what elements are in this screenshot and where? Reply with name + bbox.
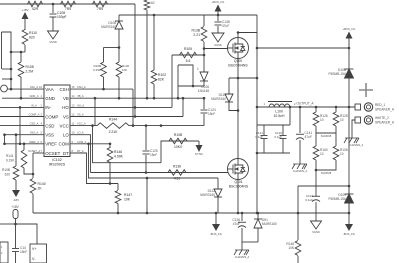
svg-text:+18V: +18V [21,8,28,12]
power flag -BUS_FIL mid [210,213,223,236]
wire HO riser [171,55,173,107]
capacitor C141 47uF [299,107,301,133]
svg-text:2.21: 2.21 [193,33,200,37]
capacitor C141 plates [296,134,304,139]
junction VSS R10B [15,133,18,136]
svg-text:VS_A: VS_A [77,113,84,117]
junction VS x135 [134,115,137,118]
connector +18V pin [13,210,18,219]
wire x183 drop [182,98,184,116]
label D106 pin1 [197,67,199,71]
diode D112 MURS160 [214,178,222,213]
wire R108 bottom [20,77,22,98]
capacitor C122 0.1uF [312,196,320,201]
svg-text:OCSET_A: OCSET_A [28,149,40,153]
svg-text:10: 10 [340,152,344,156]
svg-text:0.1uF: 0.1uF [274,135,282,139]
junction VCC x161 [160,124,163,127]
junction VSS left [3,133,6,136]
wire VCC row right [70,125,204,127]
label C144 [20,246,27,254]
svg-text:R13B: R13B [192,29,201,33]
svg-text:10: 10 [320,118,324,122]
svg-text:+18V: +18V [11,205,19,209]
power flag +BUS top [212,0,225,16]
wire OCSET to x33 drop [32,174,34,178]
svg-text:VAA_A: VAA_A [30,85,38,89]
resistor R144 2.21K [97,123,129,129]
label net VREF [29,140,43,144]
junction top rail / C108 [52,3,55,6]
junction VB x204 [203,97,206,100]
wire pin VREF [5,143,45,145]
junction C125 VCC row [145,124,148,127]
op-amp V+ V- block [30,244,47,263]
svg-text:R108: R108 [26,65,34,69]
svg-text:15nF: 15nF [208,112,215,116]
wire Q100 drain stub [237,33,239,38]
svg-text:SYNC: SYNC [195,152,204,156]
label C126 [232,218,240,226]
svg-text:0.1uF: 0.1uF [255,135,263,139]
wire R139 drop [146,10,148,98]
junction capbox rail [256,212,259,215]
connector SPKR pin1 [355,103,373,111]
svg-text:Q101: Q101 [234,180,242,184]
junction output tap [237,77,240,80]
label R10B [2,168,10,177]
junction R139 VB row [146,97,149,100]
wire R mid join [316,126,336,133]
junction out x350 [348,106,351,109]
label R144 [109,118,119,135]
junction R108 GND row [20,97,23,100]
wire R128 top [335,107,337,112]
wire pin GND [2,97,44,99]
label R132 value [65,7,71,11]
connector left edge block [0,242,8,263]
capacitor C125 15nF [143,126,150,173]
svg-text:+BUS_FIL: +BUS_FIL [343,27,356,31]
junction R117 CSH row [102,88,105,91]
svg-text:VREF_A: VREF_A [29,140,39,144]
label OUTPUT_A [296,102,314,106]
wire C108 stub [52,4,54,13]
svg-text:47uF: 47uF [305,135,312,139]
wire pin CSD [0,125,44,127]
resistor R126 10 [313,112,319,126]
wire +18V down [15,219,17,225]
chassis ground speaker [344,130,364,147]
resistor R140 4.99K [107,148,113,163]
label R128 [340,114,348,122]
svg-text:V+: V+ [32,247,37,251]
label R108 [26,65,34,74]
svg-text:SGND: SGND [312,230,320,234]
wire C141 bottom [299,140,301,156]
junction VB x183 [182,97,185,100]
junction out x302 [299,106,302,109]
svg-text:GND: GND [45,96,55,101]
svg-text:COMP_A: COMP_A [29,113,40,117]
wire -BUS rail [33,212,349,214]
junction +BUS C138 [217,14,220,17]
wire +18V node right [16,224,38,244]
junction x21 y52 [20,51,23,54]
junction C125 gate row [145,171,148,174]
label D108 [101,21,116,29]
wire VS rail corner [256,15,258,107]
wire C122 bottom [315,202,317,221]
label C124 [208,108,216,116]
wire input feed y79 [2,78,11,80]
label net COMP [29,113,43,117]
svg-text:0.1uF: 0.1uF [305,198,313,202]
label net VAA [30,85,43,89]
junction COM x110 [109,143,112,146]
svg-text:-18V: -18V [13,198,19,202]
svg-text:GND_A: GND_A [30,94,39,98]
power flag SYNC [195,141,204,156]
label D106 [198,85,209,93]
svg-text:WHITE_2: WHITE_2 [375,116,389,120]
svg-text:R141: R141 [6,154,14,158]
svg-text:15nF: 15nF [150,153,157,157]
wire DT bundle [70,153,118,184]
resistor R105 5.6 [180,52,197,58]
svg-text:HO_A: HO_A [77,103,84,107]
wire Q100 source [237,59,239,159]
wire capbox left [256,107,258,153]
wire loop leg a [178,65,193,86]
label IC102 refdes [49,158,66,167]
label R14B [174,133,183,149]
svg-text:CSD_A: CSD_A [30,122,39,126]
resistor R160 10 [313,146,319,160]
wire R mid drop b [335,133,337,146]
svg-text:R10B: R10B [174,133,183,137]
wire input feed y69 [2,68,11,70]
wire C126 D51 join [242,241,258,243]
diode D109 P6SMB-15A [345,186,354,213]
wire node row y52 [11,51,25,53]
wire capbox right [289,107,291,125]
wire VSS to R10B [15,135,17,166]
junction VAA row x11 [10,88,13,91]
junction x11 y69 [10,68,13,71]
svg-text:-BUS_FIL: -BUS_FIL [343,232,356,236]
wire top bend down x135 [134,4,136,117]
resistor R141 6.19K [21,150,27,168]
svg-text:CSH: CSH [60,87,69,92]
label C122 [305,194,313,202]
wire VCC bundle [93,126,162,163]
svg-text:OCSET: OCSET [45,151,60,156]
svg-text:CSH_A: CSH_A [77,85,86,89]
wire R110 top [24,29,26,30]
IC102 right pin numbers [72,85,87,153]
wire R141 top stub [23,144,25,150]
label R106 [340,148,348,156]
wire R148 top [297,186,299,240]
junction Q101 source rail [237,212,240,215]
svg-text:10K: 10K [288,246,295,250]
wire output tap row [229,77,257,79]
junction Q100 drain [237,31,240,34]
svg-text:R110: R110 [29,31,37,35]
wire R mid drop a [315,133,317,146]
svg-text:2.21K: 2.21K [109,130,119,134]
junction out x336 [335,106,338,109]
label R138 [192,29,201,38]
wire capbox inner top [257,124,290,126]
resistor R14B 10K0 [169,138,187,144]
svg-text:P6SMB-15A: P6SMB-15A [328,72,346,76]
power flag +BUS_FIL right [343,27,356,48]
svg-text:MURS160: MURS160 [211,97,226,101]
svg-text:6.19K: 6.19K [6,159,15,163]
wire LO bundle [70,135,91,173]
svg-text:VS: VS [63,114,69,119]
junction output x257 [256,77,259,80]
svg-text:COM_A: COM_A [77,140,86,144]
junction x257 y48 [256,47,259,50]
svg-text:R105: R105 [184,47,192,51]
wire output row [257,106,356,108]
wire pin COMP [0,116,44,118]
wire R144 riser [94,98,96,125]
svg-text:CSD: CSD [45,123,54,128]
label R136 [173,165,181,181]
op-amp IC102 IRS2092S body [44,85,70,157]
label D109 [328,193,346,201]
svg-text:LO_A: LO_A [77,131,84,135]
junction x20 VREF [19,143,22,146]
power flag -18V [12,184,20,202]
wire left loop edge [1,32,3,69]
resistor R131 42R [28,1,43,7]
resistor R146 62K [116,48,122,99]
svg-text:VCC_A: VCC_A [77,122,86,126]
IC102 left pin names [45,87,60,156]
wire y186 row [298,185,349,187]
capacitor C138 47uF [215,15,222,33]
label net IN- [31,103,42,107]
label R146 [122,64,130,72]
label SPKR pin1 [375,103,395,112]
svg-text:15nF: 15nF [20,250,27,254]
svg-text:47uF: 47uF [233,222,240,226]
ground triangle C122 [311,221,322,234]
junction HO x135 [134,106,137,109]
wire pin OCSET [33,152,44,154]
label R117 [93,64,101,72]
svg-text:SGND: SGND [49,40,57,44]
inductor L100 10.5uH [266,102,293,108]
wire SPKR2 to chassis [352,120,355,130]
junction x11 y79 [10,78,13,81]
svg-text:VB: VB [63,96,69,101]
svg-text:10K: 10K [124,198,131,202]
junction R144 VB row [94,97,97,100]
svg-text:-BUS_FIL: -BUS_FIL [210,232,223,236]
junction loop leg b VB [177,97,180,100]
svg-text:SGND08: SGND08 [321,171,332,175]
wire R148 bottom [297,256,299,263]
svg-text:SPEAKER_A: SPEAKER_A [375,121,395,125]
wire gate row Q101 [91,172,229,174]
resistor R106 10 [333,146,339,160]
junction R102 VB row [153,97,156,100]
svg-text:IRS2092S: IRS2092S [49,163,66,167]
junction x11 y52 [10,51,13,54]
svg-text:MURS160: MURS160 [262,222,277,226]
diode D10B P6SMB-15A [345,69,354,213]
svg-text:VREF: VREF [45,142,57,147]
label R126 [320,114,328,122]
label D51 [262,218,277,226]
junction R138 gate tap [203,47,206,50]
capacitor C120 0.1uF [280,125,287,153]
svg-text:R144: R144 [109,118,117,122]
svg-text:10: 10 [340,118,344,122]
wire left drop x11 [10,52,12,89]
wire COM bundle [89,144,219,178]
svg-text:620: 620 [5,173,11,177]
wire bus jog y48 [257,47,349,49]
resistor R147 10K [115,191,121,204]
label C125 [150,149,158,157]
svg-text:10: 10 [320,152,324,156]
svg-text:62K: 62K [158,78,165,82]
wire D106 bottom stub [203,81,205,86]
wire VB row right [70,97,204,99]
junction R141 VREF [23,143,26,146]
wire CSH corner down [132,89,134,126]
junction D109 rail [348,212,351,215]
svg-text:R147: R147 [124,193,132,197]
capacitor C121 0.1uF [261,125,268,153]
svg-text:6.49K: 6.49K [93,68,101,72]
svg-text:1: 1 [197,67,199,71]
junction COM bundle [87,143,90,146]
wire VS rail top [119,14,257,16]
svg-text:47uF: 47uF [222,24,229,28]
svg-text:SPEAKER_A: SPEAKER_A [375,108,395,112]
capacitor C108 100pF [50,14,57,17]
label mid net [321,134,332,138]
svg-text:COMP: COMP [45,114,58,119]
wire x20 drop [19,107,21,143]
junction C122 top [315,169,318,172]
label R140b [114,150,124,159]
wire x21 to R108 [20,52,22,62]
wire R102 bottom [153,84,155,98]
wire pin VSS [5,134,45,136]
wire top rail [0,3,135,5]
label R110 [29,31,37,40]
resistor R110 620 [22,30,28,45]
svg-text:IN_A: IN_A [31,103,37,107]
capacitor C124 15nF [201,98,208,125]
capacitor C144 15nF [12,249,19,252]
wire capbox bottom [257,152,290,154]
junction x349 y48 [348,47,351,50]
wire +18V node left [0,223,16,225]
resistor R133 7R5 [93,1,108,7]
diode D110 MURS160 [225,78,238,111]
svg-text:IC102: IC102 [52,158,62,162]
label R141 [6,154,15,163]
wire R bottom join [316,160,336,170]
ground below C108 [48,31,59,39]
wire VSS VREF tie [4,135,6,144]
junction R148 rail [297,212,300,215]
label R131 value [32,7,39,11]
svg-text:42R: 42R [32,7,39,11]
wire pin VAA [8,88,45,90]
junction R146 VB row [118,97,121,100]
wire VS row right [70,116,183,118]
wire C144 bottom [15,252,17,263]
svg-text:MURS160: MURS160 [200,193,215,197]
junction rail C126 [241,212,244,215]
wire HO row [70,106,172,108]
wire left loop top [2,32,12,52]
label pin1 L100 [264,102,296,106]
svg-text:10K: 10K [122,68,127,72]
svg-text:BSC0904NS: BSC0904NS [229,185,249,189]
resistor R136 4.61 [168,170,186,176]
label V+ V- [32,247,37,261]
junction R147 rail [117,212,120,215]
svg-text:10.5uH: 10.5uH [274,114,285,118]
resistor R138 2.21 [201,15,207,72]
resistor R117 6K8 [101,48,107,90]
label net VSS [30,131,43,135]
label C121 [255,131,263,139]
power flag +18V top [21,8,28,29]
junction R138 y55 [203,54,206,57]
wire R140 to bus rail [32,194,34,213]
svg-text:5.6: 5.6 [186,59,191,63]
svg-text:L100: L100 [275,110,283,114]
wire Q101 source [237,180,239,214]
chassis ground C126 [234,242,250,259]
wire to -18V [15,180,17,184]
label bottom net [321,171,332,175]
wire right bus vertical [348,48,350,69]
wire divider top row [104,47,120,49]
svg-text:OUTPUT_A: OUTPUT_A [296,102,314,106]
junction rail x216 [215,212,218,215]
svg-text:VCC: VCC [60,123,69,128]
wire y86 row [178,85,204,87]
svg-text:COM: COM [59,142,70,147]
wire drain to VS rail [238,32,257,34]
svg-text:+BUS_FIL: +BUS_FIL [212,0,225,4]
junction CSH VCC join [132,124,135,127]
label D10B [328,68,346,76]
svg-text:R136: R136 [173,165,181,169]
svg-text:CHASSIS_A: CHASSIS_A [349,143,364,147]
label C138 [222,20,230,28]
label SPKR pin2 [375,116,395,125]
svg-text:7R5: 7R5 [65,7,71,11]
svg-text:VB_A: VB_A [77,94,84,98]
wire R141 bottom corner [24,168,33,174]
svg-text:VSS: VSS [45,133,54,138]
